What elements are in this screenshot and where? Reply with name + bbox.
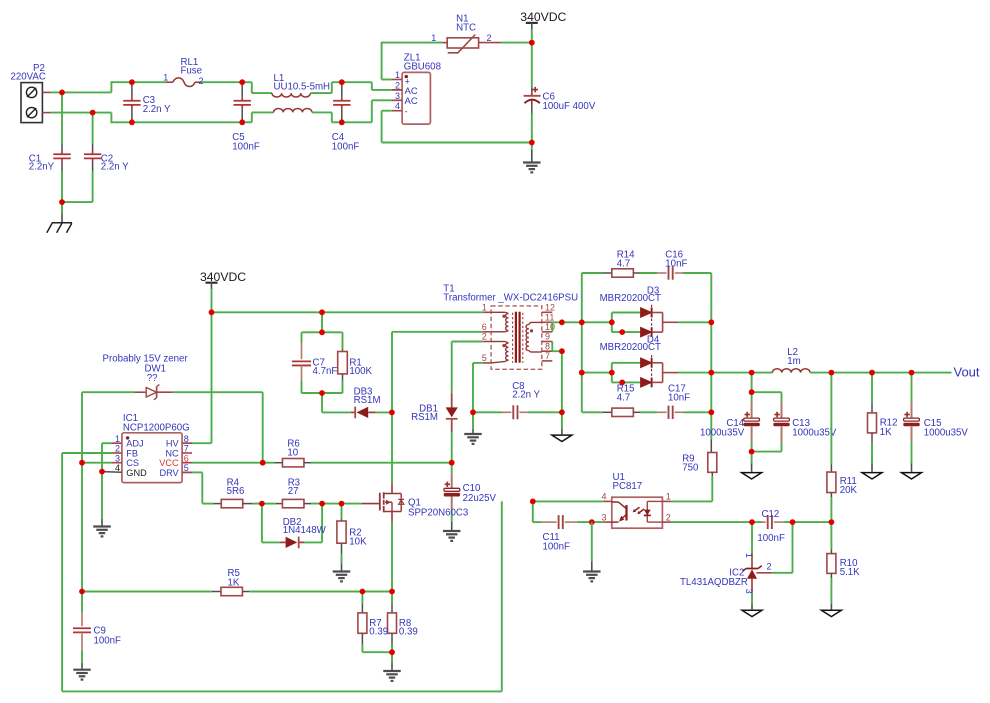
svg-text:2.2n Y: 2.2n Y — [512, 389, 540, 400]
svg-text:3: 3 — [601, 512, 606, 522]
svg-text:3: 3 — [744, 589, 754, 594]
svg-text:2: 2 — [767, 561, 772, 571]
svg-text:9: 9 — [545, 332, 550, 342]
svg-text:2: 2 — [115, 444, 120, 454]
svg-text:RS1M: RS1M — [354, 395, 381, 406]
svg-text:1: 1 — [115, 434, 120, 444]
svg-text:10: 10 — [545, 322, 555, 332]
svg-text:SPP20N60C3: SPP20N60C3 — [408, 507, 468, 518]
svg-text:NCP1200P60G: NCP1200P60G — [123, 423, 190, 434]
svg-text:0.39: 0.39 — [369, 627, 388, 638]
svg-text:10nF: 10nF — [665, 259, 687, 270]
svg-text:22u25V: 22u25V — [463, 493, 497, 504]
svg-text:ADJ: ADJ — [126, 439, 143, 449]
svg-text:2.2n Y: 2.2n Y — [143, 104, 171, 115]
svg-text:NC: NC — [165, 448, 179, 458]
svg-text:3: 3 — [115, 453, 120, 463]
svg-text:27: 27 — [288, 486, 299, 497]
svg-text:TL431AQDBZR: TL431AQDBZR — [680, 577, 748, 588]
svg-text:4.7: 4.7 — [617, 392, 630, 403]
svg-text:10nF: 10nF — [668, 392, 690, 403]
svg-text:Transformer _WX-DC2416PSU: Transformer _WX-DC2416PSU — [443, 292, 578, 303]
svg-text:100K: 100K — [349, 366, 372, 377]
svg-text:CS: CS — [126, 458, 139, 468]
svg-text:220VAC: 220VAC — [11, 71, 46, 82]
svg-text:100nF: 100nF — [757, 533, 785, 544]
svg-text:20K: 20K — [840, 485, 858, 496]
svg-text:2: 2 — [482, 332, 487, 342]
svg-text:VCC: VCC — [159, 458, 179, 468]
svg-text:11: 11 — [545, 313, 554, 323]
svg-text:100nF: 100nF — [332, 142, 360, 153]
svg-text:FB: FB — [126, 448, 138, 458]
svg-text:1m: 1m — [787, 356, 800, 367]
svg-text:1: 1 — [482, 303, 487, 313]
svg-text:1K: 1K — [880, 427, 892, 438]
svg-text:UU10.5-5mH: UU10.5-5mH — [274, 82, 331, 93]
svg-text:3: 3 — [395, 91, 400, 101]
svg-text:5: 5 — [482, 353, 487, 363]
svg-text:100nF: 100nF — [543, 542, 571, 553]
svg-text:2.2n Y: 2.2n Y — [101, 161, 129, 172]
svg-text:7: 7 — [184, 444, 189, 454]
svg-text:4: 4 — [601, 492, 606, 502]
svg-text:2.2nY: 2.2nY — [29, 161, 55, 172]
svg-text:GND: GND — [126, 468, 147, 478]
svg-text:2: 2 — [199, 76, 204, 86]
svg-text:100nF: 100nF — [94, 635, 122, 646]
svg-text:NTC: NTC — [456, 23, 476, 34]
svg-text:??: ?? — [147, 373, 158, 384]
svg-text:1000u35V: 1000u35V — [700, 427, 745, 438]
svg-text:10K: 10K — [349, 536, 367, 547]
svg-text:Vout: Vout — [954, 365, 980, 380]
svg-text:100nF: 100nF — [232, 142, 260, 153]
svg-text:2: 2 — [487, 33, 492, 43]
svg-text:6: 6 — [184, 453, 189, 463]
svg-text:GBU608: GBU608 — [404, 61, 441, 72]
svg-text:-: - — [405, 106, 408, 117]
svg-text:4.7nF: 4.7nF — [313, 366, 338, 377]
svg-text:DRV: DRV — [159, 468, 179, 478]
svg-text:C12: C12 — [762, 509, 780, 520]
svg-text:8: 8 — [184, 434, 189, 444]
svg-text:1N4148W: 1N4148W — [283, 525, 327, 536]
svg-text:6: 6 — [482, 322, 487, 332]
svg-text:750: 750 — [682, 462, 699, 473]
svg-text:1K: 1K — [228, 577, 240, 588]
svg-text:1: 1 — [395, 70, 400, 80]
svg-text:HV: HV — [166, 439, 180, 449]
svg-text:8: 8 — [545, 341, 550, 351]
svg-text:4.7: 4.7 — [617, 259, 630, 270]
svg-text:1000u35V: 1000u35V — [924, 427, 969, 438]
svg-text:1: 1 — [666, 492, 671, 502]
svg-text:MBR20200CT: MBR20200CT — [600, 293, 661, 304]
svg-text:1: 1 — [163, 73, 168, 83]
svg-text:0.39: 0.39 — [399, 627, 418, 638]
svg-text:2: 2 — [666, 512, 671, 522]
svg-text:AC: AC — [405, 86, 418, 97]
svg-text:5R6: 5R6 — [227, 486, 245, 497]
svg-text:MBR20200CT: MBR20200CT — [600, 342, 661, 353]
svg-text:1: 1 — [744, 553, 754, 558]
svg-text:PC817: PC817 — [613, 481, 643, 492]
svg-text:2: 2 — [395, 80, 400, 90]
svg-text:1: 1 — [431, 33, 436, 43]
svg-text:4: 4 — [395, 101, 400, 111]
svg-text:5.1K: 5.1K — [840, 567, 860, 578]
svg-text:12: 12 — [545, 303, 555, 313]
svg-text:RS1M: RS1M — [411, 412, 438, 423]
svg-text:100uF 400V: 100uF 400V — [543, 101, 596, 112]
svg-text:7: 7 — [545, 351, 550, 361]
svg-text:10: 10 — [287, 448, 298, 459]
svg-text:Probably 15V zener: Probably 15V zener — [103, 353, 189, 364]
svg-text:1000u35V: 1000u35V — [792, 427, 837, 438]
